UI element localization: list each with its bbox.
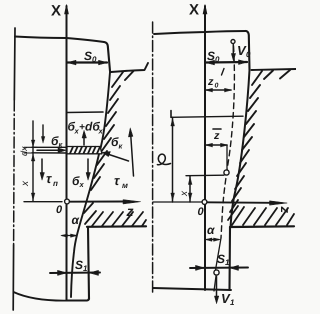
svg-text:1: 1 (230, 298, 235, 307)
svg-text:X: X (51, 3, 61, 20)
svg-text:0: 0 (56, 204, 63, 216)
svg-text:п: п (53, 179, 58, 188)
svg-text:х: х (98, 127, 104, 136)
svg-text:z: z (278, 206, 293, 214)
svg-text:0: 0 (215, 83, 219, 90)
svg-text:x: x (179, 190, 190, 197)
svg-text:0: 0 (92, 55, 97, 64)
svg-text:z: z (207, 76, 214, 88)
svg-text:α: α (207, 223, 215, 237)
svg-text:τ: τ (46, 171, 52, 186)
svg-text:X: X (189, 2, 199, 19)
svg-text:z: z (213, 130, 220, 142)
svg-text:z: z (126, 203, 134, 219)
svg-text:S: S (207, 49, 215, 63)
svg-text:1: 1 (225, 258, 230, 267)
svg-text:0: 0 (246, 50, 251, 59)
svg-text:к: к (119, 142, 124, 151)
svg-text:dx: dx (19, 146, 29, 156)
svg-text:S: S (217, 252, 225, 266)
svg-text:0: 0 (198, 206, 205, 218)
svg-text:S: S (75, 258, 83, 272)
svg-text:α: α (72, 213, 80, 227)
svg-text:1: 1 (83, 264, 88, 273)
svg-text:х: х (79, 180, 85, 189)
svg-text:x: x (20, 180, 31, 187)
svg-text:S: S (84, 49, 92, 63)
svg-text:τ: τ (114, 173, 120, 188)
svg-text:м: м (122, 181, 128, 190)
svg-text:0: 0 (215, 55, 220, 64)
